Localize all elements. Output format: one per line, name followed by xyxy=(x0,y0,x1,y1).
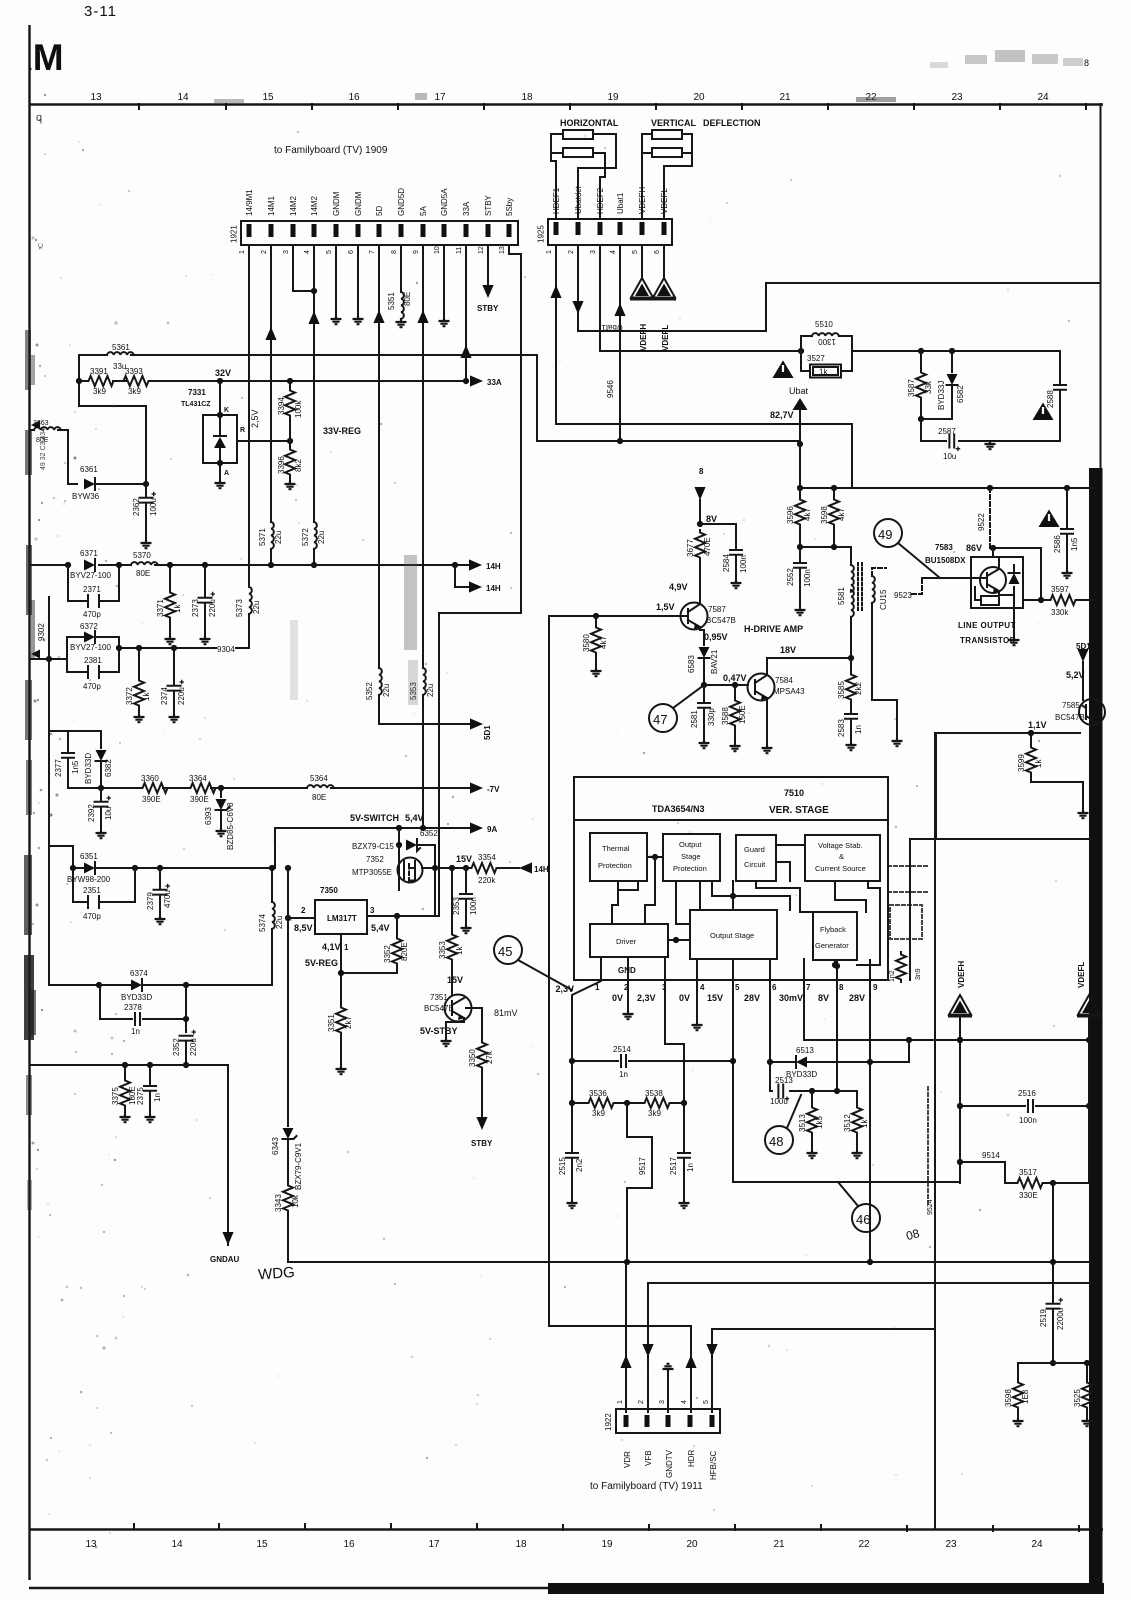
transistor 7587 BC547B xyxy=(681,603,708,630)
svg-text:1n2: 1n2 xyxy=(889,970,896,982)
svg-text:to Familyboard (TV) 1911: to Familyboard (TV) 1911 xyxy=(590,1481,703,1492)
svg-text:33A: 33A xyxy=(487,378,502,387)
svg-text:100n: 100n xyxy=(1019,1116,1037,1125)
bottom ruler xyxy=(29,1528,1103,1530)
resistor 3375 180E xyxy=(124,1065,126,1078)
collector 18V xyxy=(767,658,851,675)
svg-text:3394: 3394 xyxy=(277,397,286,415)
svg-text:3-11: 3-11 xyxy=(84,3,117,20)
horizontal deflection coils xyxy=(563,130,593,139)
svg-text:9A: 9A xyxy=(487,825,497,834)
svg-text:2352: 2352 xyxy=(172,1038,181,1056)
svg-text:7510: 7510 xyxy=(784,788,804,798)
HDEF2 route y=348 to 5510 xyxy=(600,348,801,351)
svg-text:Ubat1: Ubat1 xyxy=(616,192,625,214)
diode 6372 BYV27-100 box xyxy=(67,637,119,672)
svg-text:2381: 2381 xyxy=(84,656,102,665)
svg-text:5,2V: 5,2V xyxy=(1066,670,1085,680)
svg-text:8V: 8V xyxy=(706,514,717,524)
svg-text:Voltage Stab.: Voltage Stab. xyxy=(818,841,863,850)
left border scan noise xyxy=(24,330,36,1210)
top ruler xyxy=(29,103,1103,105)
cap 2587 10u xyxy=(949,435,960,452)
internal wires xyxy=(612,857,663,924)
wire pin6 GNDM xyxy=(357,245,359,316)
svg-text:4: 4 xyxy=(610,250,617,254)
resistor 3391 3k9 xyxy=(86,376,116,386)
svg-text:2581: 2581 xyxy=(690,710,699,728)
svg-text:0V: 0V xyxy=(612,993,623,1003)
svg-text:3351: 3351 xyxy=(327,1014,336,1032)
emitter to gnd xyxy=(446,1018,464,1038)
svg-text:22u: 22u xyxy=(426,684,435,697)
svg-text:HORIZONTAL: HORIZONTAL xyxy=(560,118,619,128)
svg-text:28V: 28V xyxy=(744,993,760,1003)
LINE OUTPUT TRANSISTOR box xyxy=(971,557,1023,608)
svg-text:3: 3 xyxy=(590,250,597,254)
svg-text:2586: 2586 xyxy=(1053,535,1062,553)
svg-text:2351: 2351 xyxy=(83,886,101,895)
inductor 5510 (1300) xyxy=(801,336,852,351)
wire pin11 33A xyxy=(465,245,467,381)
caps 2377 + diode 6382 xyxy=(49,731,101,788)
svg-text:9302: 9302 xyxy=(37,623,46,641)
svg-text:30mV: 30mV xyxy=(779,993,803,1003)
svg-text:Stage: Stage xyxy=(681,852,701,861)
svg-text:8V: 8V xyxy=(818,993,829,1003)
resistor 3353 1k xyxy=(451,868,453,932)
svg-text:8: 8 xyxy=(1084,58,1089,68)
vline joining rails xyxy=(79,355,146,484)
svg-text:2,3V: 2,3V xyxy=(637,993,656,1003)
rail y=1065 xyxy=(30,1065,228,1245)
cap 2373 220u xyxy=(204,565,206,596)
inner blocks xyxy=(590,833,647,881)
transistor 7351 BC547B xyxy=(445,995,472,1022)
svg-text:LM317T: LM317T xyxy=(327,914,357,923)
bottom edge line + bar xyxy=(29,1587,552,1589)
-7V rail y=788 xyxy=(68,787,469,789)
svg-text:5V-STBY: 5V-STBY xyxy=(420,1026,458,1036)
svg-text:14M2: 14M2 xyxy=(310,195,319,216)
svg-text:6: 6 xyxy=(772,983,777,992)
warning + cap 2586 1n5 xyxy=(1039,510,1060,528)
svg-text:3396: 3396 xyxy=(277,456,286,474)
svg-text:2353: 2353 xyxy=(452,897,461,915)
svg-text:08: 08 xyxy=(904,1226,921,1243)
transistor 7584 MPSA43 xyxy=(748,674,775,701)
svg-text:BZD85-C6V8: BZD85-C6V8 xyxy=(226,802,235,850)
svg-text:24: 24 xyxy=(1037,92,1049,103)
svg-text:Generator: Generator xyxy=(815,941,849,950)
svg-text:5371: 5371 xyxy=(258,528,267,546)
svg-text:MTP3055E: MTP3055E xyxy=(352,868,392,877)
svg-text:HDEF1: HDEF1 xyxy=(552,187,561,214)
svg-text:3353: 3353 xyxy=(438,941,447,959)
svg-text:3375: 3375 xyxy=(111,1087,120,1105)
svg-text:100k: 100k xyxy=(294,400,303,418)
svg-text:0,47V: 0,47V xyxy=(723,673,747,683)
svg-text:3352: 3352 xyxy=(383,945,392,963)
coil 5373 on pin1 xyxy=(249,587,252,614)
svg-text:14H: 14H xyxy=(486,562,501,571)
svg-text:8: 8 xyxy=(699,467,704,476)
svg-text:9514: 9514 xyxy=(982,1151,1000,1160)
zener 6352 BZX79-C15 xyxy=(398,828,400,890)
svg-text:100n: 100n xyxy=(739,555,748,573)
svg-text:11: 11 xyxy=(456,247,463,254)
svg-text:BYV27-100: BYV27-100 xyxy=(70,571,111,580)
svg-text:220u: 220u xyxy=(208,599,217,617)
svg-text:3597: 3597 xyxy=(1051,585,1069,594)
svg-text:GNDM: GNDM xyxy=(354,191,363,216)
svg-text:3536: 3536 xyxy=(589,1089,607,1098)
resistor 3352 820E xyxy=(396,916,398,936)
svg-text:H-DRIVE AMP: H-DRIVE AMP xyxy=(744,624,803,634)
svg-text:5374: 5374 xyxy=(258,914,267,932)
resistor 3585 2k2 xyxy=(850,658,852,672)
resistor 3354 220k xyxy=(469,863,499,873)
svg-text:82,7V: 82,7V xyxy=(770,410,794,420)
diode 6371 BYV27-100 box xyxy=(84,560,95,571)
9514 jog + 3517 xyxy=(960,1162,1015,1183)
svg-text:1k: 1k xyxy=(860,1119,869,1128)
svg-text:2200u: 2200u xyxy=(1056,1308,1065,1330)
svg-text:2519: 2519 xyxy=(1039,1309,1048,1327)
circle 46 callout xyxy=(852,1204,880,1232)
svg-text:6382: 6382 xyxy=(104,759,113,777)
svg-text:1k: 1k xyxy=(173,604,182,613)
pin wires xyxy=(572,957,601,1061)
pin numbers xyxy=(239,246,506,254)
warning triangle xyxy=(773,361,794,379)
svg-text:3599: 3599 xyxy=(1017,754,1026,772)
svg-text:5D: 5D xyxy=(375,206,384,216)
svg-text:20: 20 xyxy=(686,1539,698,1550)
svg-text:3k9: 3k9 xyxy=(93,387,106,396)
svg-text:17: 17 xyxy=(434,92,446,103)
svg-text:BU1508DX: BU1508DX xyxy=(925,556,966,565)
svg-text:BYD33D: BYD33D xyxy=(84,753,93,784)
svg-text:VFB: VFB xyxy=(644,1450,653,1466)
top rail 33V: y=355 xyxy=(79,355,800,441)
svg-text:45: 45 xyxy=(498,944,512,959)
cap 2583 1n xyxy=(845,714,857,719)
resistor 3596 4k7 xyxy=(799,488,801,497)
svg-text:2: 2 xyxy=(568,250,575,254)
svg-text:10u: 10u xyxy=(104,807,113,820)
svg-text:5361: 5361 xyxy=(112,343,130,352)
svg-text:33A: 33A xyxy=(462,201,471,216)
svg-text:23: 23 xyxy=(945,1539,957,1550)
resistor 3527 1k boxed xyxy=(801,351,852,371)
svg-text:DEFLECTION: DEFLECTION xyxy=(703,118,761,128)
svg-text:Current Source: Current Source xyxy=(815,864,866,873)
svg-text:4: 4 xyxy=(700,983,705,992)
svg-text:80E: 80E xyxy=(136,569,150,578)
cap 2352 220u xyxy=(180,1030,197,1041)
svg-text:18V: 18V xyxy=(780,645,796,655)
svg-text:3598: 3598 xyxy=(820,506,829,524)
3363 coil at left border xyxy=(30,430,77,484)
svg-text:8: 8 xyxy=(839,983,844,992)
svg-text:80E: 80E xyxy=(312,793,326,802)
svg-text:2: 2 xyxy=(638,1400,645,1404)
svg-text:3: 3 xyxy=(659,1400,666,1404)
svg-text:Circuit: Circuit xyxy=(744,860,766,869)
svg-text:5373: 5373 xyxy=(235,599,244,617)
svg-text:2392: 2392 xyxy=(87,804,96,822)
svg-text:2371: 2371 xyxy=(83,585,101,594)
base line xyxy=(549,615,688,617)
svg-text:2374: 2374 xyxy=(160,687,169,705)
rail y=351 to 1060 xyxy=(852,351,1060,377)
coil 5371 on pin2 xyxy=(271,522,274,549)
svg-text:4,1V: 4,1V xyxy=(322,942,341,952)
svg-text:VDEFH: VDEFH xyxy=(639,324,648,351)
svg-text:150E: 150E xyxy=(738,705,747,724)
svg-text:9517: 9517 xyxy=(638,1157,647,1175)
coil 5372 on pin4 xyxy=(314,522,317,549)
svg-text:15: 15 xyxy=(256,1539,268,1550)
svg-text:8,5V: 8,5V xyxy=(294,923,313,933)
svg-text:3k9: 3k9 xyxy=(128,387,141,396)
6513 line xyxy=(770,1061,909,1063)
1,1V line xyxy=(936,732,1080,734)
svg-text:22u: 22u xyxy=(275,916,284,929)
svg-text:5: 5 xyxy=(735,983,740,992)
svg-text:81mV: 81mV xyxy=(494,1008,518,1018)
svg-text:33V-REG: 33V-REG xyxy=(323,426,361,436)
svg-text:2k7: 2k7 xyxy=(344,1016,353,1029)
svg-text:3354: 3354 xyxy=(478,853,496,862)
svg-text:100n: 100n xyxy=(803,569,812,587)
svg-text::C: :C xyxy=(38,243,45,250)
svg-text:13: 13 xyxy=(85,1539,97,1550)
svg-text:15: 15 xyxy=(262,92,274,103)
cap 2371 470p xyxy=(88,595,99,607)
svg-text:1: 1 xyxy=(617,1400,624,1404)
svg-text:5: 5 xyxy=(632,250,639,254)
svg-text:470u: 470u xyxy=(163,890,172,908)
svg-text:5D1: 5D1 xyxy=(483,725,492,740)
resistor 3394 100k xyxy=(289,381,291,388)
svg-text:10k: 10k xyxy=(291,1194,300,1208)
GNDAU arrow xyxy=(222,1232,233,1245)
svg-text:-7V: -7V xyxy=(487,785,500,794)
svg-text:3588: 3588 xyxy=(721,707,730,725)
svg-text:VDR: VDR xyxy=(623,1451,632,1468)
svg-text:10: 10 xyxy=(434,246,441,254)
dashed snubber area right of TDA xyxy=(888,866,928,892)
svg-text:4k7: 4k7 xyxy=(803,508,812,521)
svg-text:1921: 1921 xyxy=(230,225,239,243)
svg-text:6361: 6361 xyxy=(80,465,98,474)
svg-text:4k7: 4k7 xyxy=(599,636,608,649)
svg-text:STBY: STBY xyxy=(484,194,493,216)
svg-text:6351: 6351 xyxy=(80,852,98,861)
svg-text:7584: 7584 xyxy=(775,676,793,685)
svg-text:220u: 220u xyxy=(177,687,186,705)
wire pin12 STBY xyxy=(487,245,489,286)
cap 2552 100n xyxy=(799,547,801,607)
svg-text:9: 9 xyxy=(413,250,420,254)
svg-text:1n: 1n xyxy=(686,1163,695,1172)
svg-text:2n2: 2n2 xyxy=(575,1158,584,1172)
svg-text:VERTICAL: VERTICAL xyxy=(651,118,697,128)
resistor 3396 8k2 xyxy=(289,441,291,447)
resistor 3512 1k xyxy=(856,1091,858,1105)
svg-text:R: R xyxy=(240,427,245,434)
svg-text:6374: 6374 xyxy=(130,969,148,978)
resistor 3393 3k9 xyxy=(121,376,151,386)
svg-text:3580: 3580 xyxy=(582,634,591,652)
right thick bar xyxy=(1089,468,1103,1592)
svg-text:2515: 2515 xyxy=(558,1157,567,1175)
svg-text:BYD33D: BYD33D xyxy=(121,993,152,1002)
svg-text:3360: 3360 xyxy=(141,774,159,783)
svg-text:18: 18 xyxy=(515,1539,527,1550)
svg-text:AM: AM xyxy=(6,37,64,78)
svg-text:820E: 820E xyxy=(400,942,409,961)
emitter chain: 0,95V diode 6583 BAV21 xyxy=(700,627,704,645)
svg-text:BYD33J: BYD33J xyxy=(937,381,946,410)
svg-text:1n: 1n xyxy=(619,1070,628,1079)
svg-text:470p: 470p xyxy=(83,912,101,921)
svg-text:2584: 2584 xyxy=(722,554,731,572)
svg-text:1n5: 1n5 xyxy=(71,760,80,774)
svg-text:HDR: HDR xyxy=(687,1449,696,1467)
9A rail y=828 xyxy=(275,827,469,829)
svg-text:2373: 2373 xyxy=(191,599,200,617)
svg-text:2516: 2516 xyxy=(1018,1089,1036,1098)
svg-text:19: 19 xyxy=(607,92,619,103)
svg-text:Ubat: Ubat xyxy=(789,386,809,396)
2514 row y=1061 xyxy=(572,1060,733,1062)
32V rail y=381 xyxy=(79,380,466,382)
svg-text:5372: 5372 xyxy=(301,528,310,546)
svg-text:6: 6 xyxy=(654,250,661,254)
svg-text:3372: 3372 xyxy=(125,687,134,705)
svg-text:9546: 9546 xyxy=(606,380,615,398)
svg-text:7587: 7587 xyxy=(708,605,726,614)
1,1V feed line from x=936 down to y=839 xyxy=(910,733,1092,839)
svg-text:6343: 6343 xyxy=(271,1137,280,1155)
svg-text:5: 5 xyxy=(326,250,333,254)
svg-text:Protection: Protection xyxy=(598,861,632,870)
coil 5361 xyxy=(107,352,134,355)
svg-text:STBY: STBY xyxy=(477,304,499,313)
arrow up on pin2 xyxy=(265,327,276,340)
svg-text:49 32 C3 434: 49 32 C3 434 xyxy=(40,428,47,470)
svg-text:1k: 1k xyxy=(1034,759,1043,768)
coil 5352 on pin7 xyxy=(379,668,382,695)
resistor 3371 1k xyxy=(169,565,171,590)
svg-text:BZX79-C15: BZX79-C15 xyxy=(352,842,394,851)
wire pin1 14/9M1 xyxy=(248,245,250,585)
svg-text:1: 1 xyxy=(344,943,349,952)
svg-text:A: A xyxy=(224,470,229,477)
svg-text:2k2: 2k2 xyxy=(854,682,863,695)
svg-text:3517: 3517 xyxy=(1019,1168,1037,1177)
svg-text:390E: 390E xyxy=(190,795,209,804)
coil 5374 on riser x=272 xyxy=(271,868,273,902)
long hlines xyxy=(648,1282,1092,1284)
pin6 to 2513 row xyxy=(770,1062,772,1091)
svg-text:100u: 100u xyxy=(149,498,158,516)
svg-text:2377: 2377 xyxy=(54,759,63,777)
wire pin5 GNDM xyxy=(335,245,337,316)
diode 6361 BYW36 xyxy=(84,479,95,490)
svg-text:7585: 7585 xyxy=(1062,701,1080,710)
svg-text:6352: 6352 xyxy=(420,829,438,838)
svg-text:24: 24 xyxy=(1031,1539,1043,1550)
svg-text:VDEFL: VDEFL xyxy=(660,188,669,214)
svg-text:TRANSISTOR: TRANSISTOR xyxy=(960,636,1016,645)
Ubat arrow xyxy=(773,361,794,379)
svg-text:Output: Output xyxy=(679,840,702,849)
coil 5370 80E xyxy=(131,562,158,565)
svg-text:49: 49 xyxy=(878,527,892,542)
pin wires xyxy=(625,1262,627,1412)
svg-text:14M2: 14M2 xyxy=(289,195,298,216)
resistor 3364 390E xyxy=(188,783,218,793)
svg-text:16: 16 xyxy=(343,1539,355,1550)
svg-text:7331: 7331 xyxy=(188,388,206,397)
resistor 3513 1k5 xyxy=(811,1091,813,1105)
resistor 3587 33k xyxy=(920,351,922,370)
svg-text:1k5: 1k5 xyxy=(815,1116,824,1129)
pin5 VDEFH tag xyxy=(641,245,643,279)
cap 2375 1n xyxy=(149,1065,151,1114)
svg-text:4: 4 xyxy=(304,250,311,254)
9517 jog xyxy=(627,1103,652,1262)
circle 48 callout xyxy=(765,1126,793,1154)
vline down from 6352 node to LM317 out xyxy=(434,868,436,916)
svg-text:2379: 2379 xyxy=(146,892,155,910)
resistor 3351 2k7 xyxy=(336,1005,346,1035)
svg-text:2362: 2362 xyxy=(132,498,141,516)
MOSFET 7352 xyxy=(398,858,423,883)
cap 2516 100n row xyxy=(960,1105,1089,1107)
svg-text:46: 46 xyxy=(856,1212,870,1227)
cap 2392 10u xyxy=(100,788,102,800)
zener 6343 + 3343 rail x=288 xyxy=(287,868,289,1126)
collector up is 3353; base from 27k xyxy=(466,1008,482,1040)
svg-text:14/9M1: 14/9M1 xyxy=(245,189,254,216)
left border xyxy=(28,25,30,1580)
svg-text:HFB/SC: HFB/SC xyxy=(709,1450,718,1480)
svg-text:23: 23 xyxy=(951,92,963,103)
svg-text:6372: 6372 xyxy=(80,622,98,631)
svg-text:3512: 3512 xyxy=(843,1114,852,1132)
svg-text:7583: 7583 xyxy=(935,543,953,552)
svg-text:17: 17 xyxy=(428,1539,440,1550)
svg-text:1n5: 1n5 xyxy=(1070,537,1079,551)
svg-text:2517: 2517 xyxy=(669,1157,678,1175)
svg-text:6583: 6583 xyxy=(687,655,696,673)
svg-text:GND5D: GND5D xyxy=(397,188,406,216)
svg-text:3: 3 xyxy=(370,906,375,915)
svg-text:3585: 3585 xyxy=(837,681,846,699)
svg-text:14H: 14H xyxy=(534,865,549,874)
svg-text:330E: 330E xyxy=(1019,1191,1038,1200)
svg-text:HDEF2: HDEF2 xyxy=(596,187,605,214)
resistor 3677 470E xyxy=(695,530,705,560)
svg-text:Driver: Driver xyxy=(616,937,637,946)
3598/3525 pair xyxy=(1018,1362,1087,1364)
svg-text:3677: 3677 xyxy=(686,539,695,557)
